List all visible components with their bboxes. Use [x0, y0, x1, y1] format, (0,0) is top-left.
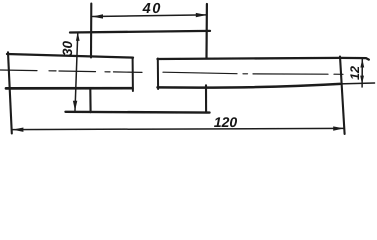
middle block right edge lower: [205, 85, 207, 112]
middle block top edge: [70, 31, 210, 33]
middle block left edge lower: [89, 88, 91, 112]
arrowhead 120 left: [12, 128, 23, 132]
middle block bottom edge: [66, 111, 210, 114]
extension line 12 bottom: [340, 82, 375, 85]
arrowhead 120 right: [333, 126, 344, 130]
dimension text 40: [142, 3, 160, 13]
dimension line 120: [13, 128, 345, 129]
middle block left edge upper (also 40-dim extension line): [90, 4, 92, 58]
right rod bottom edge: [158, 84, 341, 88]
dimension text 12: [350, 66, 359, 80]
left rod top edge: [7, 54, 133, 58]
dimension text 120: [214, 117, 237, 127]
arrowhead 40 right: [196, 13, 207, 17]
arrowhead 30 bottom: [73, 101, 77, 111]
arrowhead 12 top: [360, 59, 364, 68]
dimension line 12: [361, 59, 363, 87]
dimension line 30: [75, 32, 78, 110]
arrowhead 12 bottom: [360, 76, 364, 84]
centerline right rod (dash-dot): [163, 72, 343, 74]
left rod bottom edge: [6, 87, 132, 90]
left rod left edge (extends down as 120-dim extension line): [8, 52, 12, 133]
right rod right edge (extends down as 120-dim extension line): [340, 57, 345, 135]
right rod top edge: [158, 58, 369, 60]
centerline left rod (dash-dot): [0, 70, 142, 72]
arrowhead 30 top: [76, 32, 80, 41]
dimension text 30: [63, 41, 73, 56]
arrowhead 40 left: [92, 14, 103, 18]
dimension line 40: [93, 15, 207, 17]
left rod right end edge: [132, 58, 134, 91]
middle block right edge upper (also 40-dim extension line): [205, 4, 208, 58]
right rod left end edge: [157, 59, 159, 90]
